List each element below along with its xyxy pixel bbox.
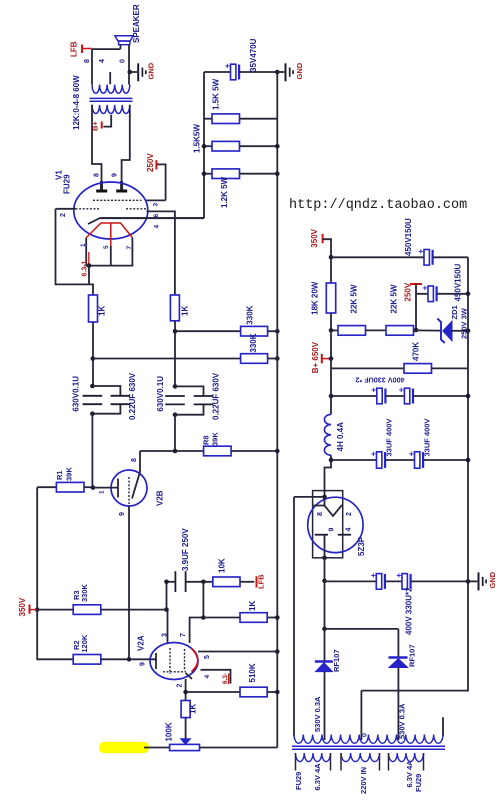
- svg-text:6.3-1: 6.3-1: [82, 260, 89, 276]
- svg-text:0: 0: [120, 59, 127, 63]
- svg-text:530V 0.3A: 530V 0.3A: [313, 696, 322, 732]
- svg-text:9: 9: [140, 662, 147, 666]
- svg-text:GND: GND: [147, 62, 156, 79]
- svg-text:B+ 650V: B+ 650V: [311, 341, 320, 373]
- svg-text:LFB: LFB: [256, 574, 265, 589]
- svg-text:39K: 39K: [64, 467, 73, 481]
- svg-text:1K: 1K: [248, 601, 257, 611]
- svg-text:5Z3P: 5Z3P: [357, 536, 366, 556]
- svg-text:1.2K 5W: 1.2K 5W: [220, 176, 229, 208]
- svg-text:8: 8: [317, 512, 324, 516]
- svg-text:250V 3W: 250V 3W: [459, 307, 468, 339]
- svg-text:330K: 330K: [80, 583, 89, 602]
- svg-text:9: 9: [328, 528, 335, 532]
- svg-text:4: 4: [99, 59, 106, 63]
- svg-text:SPEAKER: SPEAKER: [132, 4, 141, 43]
- svg-text:400V 330UF *2: 400V 330UF *2: [355, 376, 404, 385]
- svg-text:18K 20W: 18K 20W: [311, 281, 320, 315]
- svg-text:1: 1: [80, 243, 87, 247]
- svg-text:2: 2: [346, 512, 353, 516]
- svg-text:470K: 470K: [412, 342, 421, 361]
- svg-text:6: 6: [153, 214, 160, 218]
- svg-text:GND: GND: [295, 62, 304, 79]
- svg-text:10K: 10K: [217, 558, 226, 573]
- svg-text:+: +: [371, 570, 376, 580]
- svg-text:4: 4: [345, 528, 352, 532]
- svg-text:100K: 100K: [164, 722, 173, 741]
- svg-text:250V: 250V: [146, 153, 155, 172]
- svg-text:1.5K 5W: 1.5K 5W: [212, 78, 221, 110]
- svg-text:B+: B+: [90, 121, 99, 131]
- svg-text:220V IN: 220V IN: [359, 767, 368, 794]
- svg-text:LFB: LFB: [70, 41, 79, 57]
- svg-text:9: 9: [119, 512, 126, 516]
- svg-text:7: 7: [180, 633, 187, 637]
- svg-text:5: 5: [103, 245, 110, 249]
- svg-text:0.22UF 630V: 0.22UF 630V: [211, 372, 220, 420]
- svg-text:R8: R8: [201, 435, 210, 445]
- svg-text:1.5K5W: 1.5K5W: [193, 124, 202, 153]
- svg-text:+: +: [371, 385, 376, 395]
- svg-text:RF107: RF107: [407, 644, 416, 667]
- svg-text:510K: 510K: [248, 663, 257, 682]
- svg-text:2: 2: [177, 684, 184, 688]
- svg-text:4H 0.4A: 4H 0.4A: [336, 422, 345, 452]
- svg-text:250V: 250V: [404, 282, 413, 301]
- svg-text:3: 3: [162, 633, 169, 637]
- svg-text:+: +: [396, 570, 401, 580]
- svg-text:630V0.1U: 630V0.1U: [156, 376, 165, 412]
- svg-text:35V470U: 35V470U: [249, 38, 258, 72]
- svg-text:4: 4: [154, 225, 161, 229]
- svg-text:6.3V 4A: 6.3V 4A: [405, 760, 414, 788]
- svg-text:330K: 330K: [246, 305, 255, 324]
- svg-text:+: +: [418, 246, 423, 256]
- svg-text:3.9UF 250V: 3.9UF 250V: [181, 528, 190, 571]
- svg-text:22K 5W: 22K 5W: [350, 284, 359, 313]
- svg-text:120K: 120K: [80, 634, 89, 653]
- svg-text:8: 8: [131, 458, 138, 462]
- svg-text:450V150U: 450V150U: [454, 263, 463, 301]
- svg-text:5: 5: [204, 655, 211, 659]
- svg-text:0.22UF 630V: 0.22UF 630V: [128, 372, 137, 420]
- svg-text:1K: 1K: [181, 306, 190, 316]
- svg-text:+: +: [399, 385, 404, 395]
- svg-text:V2B: V2B: [156, 490, 165, 506]
- svg-text:FU29: FU29: [294, 772, 303, 790]
- svg-text:4: 4: [204, 675, 211, 679]
- svg-text:8: 8: [94, 173, 101, 177]
- svg-text:450V150U: 450V150U: [404, 218, 413, 256]
- svg-text:+: +: [371, 449, 376, 459]
- svg-text:FU29: FU29: [62, 174, 71, 194]
- svg-text:0: 0: [362, 733, 369, 737]
- svg-text:FU29: FU29: [414, 774, 423, 792]
- svg-text:33UF 400V: 33UF 400V: [384, 419, 393, 457]
- svg-text:6.3-: 6.3-: [222, 673, 229, 684]
- svg-text:350V: 350V: [310, 228, 319, 247]
- svg-text:6.3V 4A: 6.3V 4A: [313, 763, 322, 791]
- svg-text:400V 330U*2: 400V 330U*2: [405, 587, 414, 635]
- svg-text:GND: GND: [488, 571, 497, 588]
- svg-text:33UF 400V: 33UF 400V: [422, 419, 431, 457]
- svg-text:12K:0-4-8 60W: 12K:0-4-8 60W: [72, 75, 81, 130]
- svg-text:R1: R1: [55, 470, 64, 480]
- svg-text:8: 8: [84, 59, 91, 63]
- svg-text:630V0.1U: 630V0.1U: [71, 376, 80, 412]
- svg-text:RF107: RF107: [332, 649, 341, 672]
- svg-text:530V 0.3A: 530V 0.3A: [397, 703, 406, 739]
- svg-text:+: +: [409, 449, 414, 459]
- svg-text:350V: 350V: [18, 597, 27, 616]
- svg-text:+: +: [422, 282, 427, 292]
- svg-text:7: 7: [126, 246, 133, 250]
- svg-text:1K: 1K: [189, 704, 198, 714]
- svg-text:9: 9: [111, 173, 118, 177]
- svg-text:1K: 1K: [98, 306, 107, 316]
- svg-text:3: 3: [153, 203, 160, 207]
- svg-text:2: 2: [60, 213, 67, 217]
- svg-text:http://qndz.taobao.com: http://qndz.taobao.com: [289, 198, 467, 213]
- svg-text:ZD1: ZD1: [450, 305, 459, 319]
- svg-text:+: +: [225, 61, 230, 71]
- svg-text:1: 1: [99, 490, 106, 494]
- svg-text:V2A: V2A: [137, 635, 146, 651]
- svg-text:39K: 39K: [210, 432, 219, 446]
- svg-text:330K: 330K: [249, 333, 258, 352]
- svg-text:22K 5W: 22K 5W: [390, 284, 399, 313]
